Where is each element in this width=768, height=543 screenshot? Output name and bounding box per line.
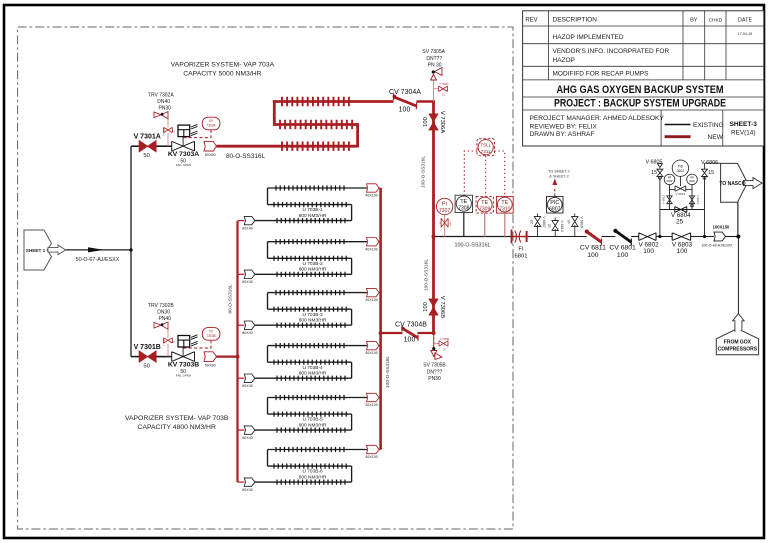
junction node main riser outlet [432, 235, 436, 239]
junction station left [658, 235, 661, 238]
pipe from GOX compressors [737, 237, 739, 315]
gate valve V 7301A (new) [139, 141, 156, 152]
svg-text:V 7307: V 7307 [448, 220, 450, 228]
vaporizer B inlet header [236, 221, 238, 482]
signal dotted link TSLL to TE 7309 [485, 156, 487, 197]
U 703B-1 inlet connector 80X40 [244, 216, 255, 224]
svg-text:V 6812: V 6812 [662, 194, 666, 204]
svg-text:TE: TE [501, 200, 508, 206]
svg-text:6807: 6807 [549, 207, 561, 213]
svg-text:VAPORIZER SYSTEM- VAP 703A: VAPORIZER SYSTEM- VAP 703A [171, 61, 275, 68]
svg-text:U 703B-3: U 703B-3 [302, 312, 323, 318]
U 703B-2 outlet stub [379, 241, 381, 243]
svg-text:V 7308A: V 7308A [439, 83, 449, 86]
bypass valve V 6804 [675, 207, 687, 213]
svg-text:800 NM3/HR: 800 NM3/HR [299, 423, 327, 429]
svg-text:SV 7305B: SV 7305B [423, 363, 446, 369]
svg-text:800 NM3/HR: 800 NM3/HR [299, 318, 327, 324]
reducer 100X150 [714, 232, 725, 241]
svg-text:DN30: DN30 [157, 310, 170, 316]
U 703B-2 inlet stub [238, 273, 245, 275]
U 703B-1 outlet connector 40X100 [367, 184, 380, 192]
svg-text:V 6807: V 6807 [542, 216, 546, 227]
svg-text:V 7306B: V 7306B [439, 296, 445, 318]
svg-text:REV: REV [525, 17, 537, 23]
svg-text:NEW: NEW [708, 134, 724, 141]
vaporizer unit U 703B-4 coil [254, 343, 367, 381]
svg-text:40X100: 40X100 [365, 194, 377, 198]
KV 7303A actuator [178, 124, 198, 146]
svg-text:V 6809: V 6809 [579, 216, 583, 227]
svg-text:50X80: 50X80 [205, 363, 216, 367]
svg-text:100: 100 [677, 248, 688, 255]
svg-text:800 NM3/HR: 800 NM3/HR [299, 475, 327, 481]
signal dotted link TSLL to TE 7310 [495, 151, 505, 196]
riser pipe to branches A and B [130, 146, 132, 356]
pipe into valve V 7301A [131, 145, 139, 147]
svg-text:FAIL OPEN: FAIL OPEN [176, 373, 191, 377]
svg-text:CV 6811: CV 6811 [580, 245, 606, 252]
svg-text:U 703B-6: U 703B-6 [302, 469, 323, 475]
pipe CV6801 to V6802 [631, 236, 638, 238]
svg-text:80X40: 80X40 [242, 488, 252, 492]
junction node B header [236, 355, 240, 359]
svg-text:7309: 7309 [479, 207, 490, 213]
svg-text:50: 50 [143, 153, 149, 159]
relief valve SV 7305A symbol [431, 68, 443, 102]
U 703B-4 outlet stub [379, 345, 381, 347]
isolation valve V 7306A [429, 114, 439, 130]
U 703B-6 inlet connector 80X40 [244, 478, 255, 486]
vaporizer A coil row 1 (outlet) [274, 100, 393, 103]
svg-text:EXISTING: EXISTING [693, 122, 724, 129]
vaporizer A coil row 2 fins [280, 120, 352, 129]
pipe V6803 to reducer [691, 236, 714, 238]
TE 7309 stem [484, 213, 486, 236]
main pipe FI to CV 6811 [529, 236, 587, 238]
temperature element TE 7308 housing [455, 195, 472, 212]
svg-text:100: 100 [404, 337, 416, 344]
control valve KV 7303A [172, 141, 195, 151]
svg-text:100: 100 [643, 248, 654, 255]
arrowhead to sheets [552, 179, 557, 186]
svg-text:PR: PR [668, 176, 672, 180]
svg-text:80X40: 80X40 [242, 384, 252, 388]
svg-text:TO NASCO: TO NASCO [719, 181, 745, 187]
TSLL 7311 bubble [478, 140, 493, 155]
U 703B-2 inlet connector 80X40 [244, 270, 255, 278]
svg-text:DN40: DN40 [157, 99, 170, 105]
svg-text:TE: TE [481, 200, 488, 206]
svg-text:100: 100 [617, 252, 629, 259]
inlet pipe from sheet 1 [66, 249, 132, 251]
U 703B-3 inlet stub [238, 324, 245, 326]
svg-text:7310: 7310 [499, 207, 510, 213]
svg-text:KV 7303B: KV 7303B [168, 362, 199, 369]
svg-text:40X100: 40X100 [365, 298, 377, 302]
U 703B-5 inlet stub [238, 429, 245, 431]
svg-text:PN30: PN30 [158, 105, 171, 111]
TE 7308 bubble [456, 196, 471, 211]
isolation valve V 6806 [702, 169, 708, 176]
svg-text:HAZOP IMPLEMENTED: HAZOP IMPLEMENTED [553, 34, 624, 41]
pipe NASCO flag to main line [737, 202, 739, 236]
legend existing line [665, 124, 691, 126]
TE 7308 stem [463, 213, 465, 237]
svg-text:DN???: DN??? [426, 56, 442, 62]
svg-text:80X40: 80X40 [242, 226, 252, 230]
svg-text:3602: 3602 [677, 169, 685, 173]
svg-text:17-04-19: 17-04-19 [738, 32, 752, 36]
U 703B-4 inlet stub [238, 377, 245, 379]
svg-text:800 NM3/HR: 800 NM3/HR [299, 213, 327, 219]
svg-text:40X100: 40X100 [365, 403, 377, 407]
gate valve V 6803 [672, 233, 691, 241]
svg-text:7308: 7308 [458, 206, 469, 212]
svg-text:FROM GOX: FROM GOX [724, 339, 752, 345]
svg-text:7307: 7307 [439, 208, 450, 214]
svg-text:V 7306A: V 7306A [439, 111, 445, 133]
U 703B-3 inlet connector 80X40 [244, 321, 255, 329]
svg-text:SHEET-3: SHEET-3 [729, 121, 757, 128]
control valve CV 7304A [393, 94, 417, 110]
pipe into valve V 7301B [131, 356, 139, 358]
vaporizer A right bend [356, 123, 359, 147]
svg-text:0909: 0909 [689, 179, 695, 183]
svg-text:KV 7303A: KV 7303A [168, 151, 199, 158]
PSV station piping [660, 176, 705, 236]
svg-text:V 6806: V 6806 [701, 160, 718, 166]
svg-text:MODIFIFD FOR RECAP PUMPS: MODIFIFD FOR RECAP PUMPS [553, 71, 650, 78]
gate valve V 6802 [639, 233, 656, 241]
svg-text:0909: 0909 [667, 179, 673, 183]
svg-text:100: 100 [587, 252, 599, 259]
svg-text:V 6813: V 6813 [696, 195, 700, 205]
svg-text:25: 25 [676, 219, 683, 226]
svg-text:40X100: 40X100 [365, 351, 377, 355]
svg-text:U 703B-2: U 703B-2 [302, 261, 323, 267]
svg-text:V 7301B: V 7301B [134, 344, 161, 351]
U 703B-3 outlet connector 40X100 [367, 288, 380, 296]
reducer 50X80 [204, 352, 216, 362]
vaporizer A left bend [273, 100, 276, 126]
pipe reducer to NASCO junction [725, 236, 738, 238]
gate valve V 7301B (new) [139, 351, 156, 362]
U 703B-4 inlet connector 80X40 [244, 374, 255, 382]
U 703B-6 outlet connector 40X100 [367, 445, 380, 453]
control valve CV 6801 (existing) [613, 229, 631, 246]
svg-text:40X100: 40X100 [365, 455, 377, 459]
svg-text:V 6805: V 6805 [645, 159, 662, 165]
svg-text:& SHEET-2: & SHEET-2 [549, 175, 568, 179]
svg-text:AHG GAS OXYGEN BACKUP SYSTEM: AHG GAS OXYGEN BACKUP SYSTEM [557, 84, 724, 96]
svg-text:100-O-SS316L: 100-O-SS316L [455, 242, 491, 248]
svg-text:50: 50 [143, 363, 149, 369]
bypass valve V 7308A (to SV 7305A) [434, 83, 449, 97]
U 703B-6 outlet stub [379, 449, 381, 451]
svg-text:DESCRIPTION: DESCRIPTION [553, 16, 598, 23]
svg-text:10: 10 [548, 224, 552, 228]
svg-text:CHKD: CHKD [709, 18, 723, 24]
vaporizer unit U 703B-5 coil [254, 395, 367, 433]
svg-text:80X40: 80X40 [242, 280, 252, 284]
svg-text:100X150: 100X150 [713, 224, 730, 229]
svg-text:7303B: 7303B [206, 334, 215, 338]
signal dashes XV to actuator [184, 340, 212, 348]
pipe 80-O-SS316L to vaporizer A [216, 145, 282, 147]
svg-text:80X40: 80X40 [242, 331, 252, 335]
junction node B header outlet [379, 331, 383, 335]
temperature element TE 7310 housing [496, 196, 513, 213]
svg-text:TSLL: TSLL [480, 142, 491, 147]
pipe CV 7304A to main riser [417, 100, 435, 103]
svg-text:SHEET 1: SHEET 1 [26, 248, 46, 253]
U 703B-5 outlet stub [379, 397, 381, 399]
svg-text:PN 30: PN 30 [428, 62, 442, 68]
svg-text:40: 40 [567, 220, 571, 224]
svg-text:TRV 7302A: TRV 7302A [148, 93, 174, 99]
junction station right [703, 235, 706, 238]
svg-text:PI: PI [442, 201, 447, 207]
U 703B-2 outlet connector 40X100 [367, 238, 380, 246]
svg-text:100-O-49-AJ/ESXX: 100-O-49-AJ/ESXX [701, 244, 733, 248]
PSV cluster PR 0909 / PID 3602 [662, 160, 700, 210]
svg-text:15: 15 [708, 170, 714, 176]
svg-text:TO SHEET-1: TO SHEET-1 [548, 170, 570, 174]
isolation valve V 7306B [429, 299, 439, 315]
svg-text:PR: PR [690, 176, 694, 180]
pipe between V7301 and KV [156, 356, 172, 358]
svg-text:U 703B-5: U 703B-5 [302, 417, 323, 423]
signal dashed to other sheets [554, 187, 556, 197]
vaporizer A coil row 1 fins [282, 97, 349, 106]
reducer 50X80 [204, 141, 216, 151]
svg-text:CV 7304B: CV 7304B [395, 322, 427, 329]
svg-text:800 NM3/HR: 800 NM3/HR [299, 267, 327, 273]
svg-text:CAPACITY 5000 NM3/HR: CAPACITY 5000 NM3/HR [183, 70, 261, 77]
main outlet pipe (existing) [434, 236, 512, 238]
flow element FI 6801 orifice flanges [512, 230, 530, 244]
off-page TO NASCO flag [721, 163, 748, 202]
svg-text:80X40: 80X40 [242, 436, 252, 440]
thermal relief valve TRV 7302B assembly [154, 322, 175, 357]
svg-text:DATE: DATE [738, 18, 753, 24]
svg-text:25: 25 [530, 220, 534, 224]
U 703B-1 inlet stub [238, 220, 245, 222]
U 703B-6 inlet stub [238, 481, 245, 483]
vaporizer A coil row 3 (inlet) [216, 145, 357, 148]
temperature switch TSLL 7311 housing [477, 139, 495, 156]
svg-text:DN???: DN??? [427, 370, 443, 376]
relief branch below junction [433, 333, 435, 349]
TE 7310 bubble [497, 197, 512, 212]
title block grid [523, 11, 764, 146]
U 703B-4 outlet connector 40X100 [367, 341, 380, 349]
PIC 6807 root valve [548, 218, 564, 237]
svg-text:REVIEWED BY: FELIX: REVIEWED BY: FELIX [530, 123, 598, 130]
svg-text:V 7305B: V 7305B [440, 338, 450, 341]
thermal relief valve TRV 7302A assembly [154, 112, 175, 147]
PI 7307 root valve [440, 215, 450, 237]
vaporizer unit U 703B-2 coil [254, 239, 367, 277]
pressure indicator PI 7307 [436, 198, 452, 214]
svg-text:REV(14): REV(14) [731, 129, 756, 136]
flow arrow on inlet pipe [88, 247, 104, 252]
svg-text:CV 7304A: CV 7304A [389, 89, 421, 96]
svg-text:7311: 7311 [481, 149, 491, 154]
relief valve SV 7305B assembly [431, 338, 450, 360]
junction node main riser at 333 [432, 331, 436, 335]
svg-text:PID: PID [678, 164, 684, 168]
svg-text:U 703B-4: U 703B-4 [302, 365, 323, 371]
title block revision rows text [525, 16, 752, 77]
solenoid tag XV 7303A [202, 117, 220, 130]
svg-text:COMPRESSORS: COMPRESSORS [718, 347, 758, 353]
junction node at riser [129, 248, 132, 251]
svg-text:PROJECT : BACKUP SYSTEM UPGRAD: PROJECT : BACKUP SYSTEM UPGRADE [554, 98, 726, 110]
junction node NASCO [736, 235, 740, 239]
svg-text:V 6815: V 6815 [676, 192, 686, 196]
signal dotted link TSLL to TE 7308 [464, 151, 477, 195]
isolation valve V 6805 [657, 169, 663, 176]
SHEET 1 open arrow [48, 245, 66, 255]
svg-text:V 7301A: V 7301A [134, 134, 161, 141]
U 703B-5 outlet connector 40X100 [367, 393, 380, 401]
svg-text:DRAWN BY: ASHRAF: DRAWN BY: ASHRAF [530, 131, 595, 138]
control valve KV 7303B [172, 352, 195, 362]
svg-text:100-O-SS316L: 100-O-SS316L [421, 156, 427, 188]
svg-text:SV 7305A: SV 7305A [422, 49, 445, 55]
vaporizer B outlet header [379, 188, 382, 450]
vent valve V 6807 [530, 214, 546, 237]
svg-text:100-O-SS316L: 100-O-SS316L [424, 259, 430, 291]
svg-text:FAIL OPEN: FAIL OPEN [176, 163, 191, 167]
pipe B header to CV 7304B [381, 332, 403, 334]
svg-text:V 7302A: V 7302A [163, 127, 166, 136]
svg-text:50X80: 50X80 [205, 153, 216, 157]
svg-text:800 NM3/HR: 800 NM3/HR [299, 371, 327, 377]
vaporizer A coil row 3 fins [282, 142, 349, 151]
pipe V6802 to V6803 [656, 236, 672, 238]
svg-text:CAPACITY 4800 NM3/HR: CAPACITY 4800 NM3/HR [138, 424, 216, 431]
off-page connector SHEET 1 flag [24, 230, 52, 270]
svg-text:PEROJECT MANAGER: AHMED ALDESO: PEROJECT MANAGER: AHMED ALDESOKY [530, 115, 665, 122]
vaporizer A coil row 2 [274, 123, 357, 126]
svg-text:PIC: PIC [550, 200, 559, 206]
vaporizer unit U 703B-1 coil [254, 185, 367, 223]
U 703B-1 outlet stub [379, 187, 381, 189]
svg-text:7303A: 7303A [206, 124, 216, 128]
TO NASCO arrow [744, 178, 763, 189]
solenoid tag XV 7303B [202, 328, 220, 341]
svg-text:V 6810: V 6810 [560, 220, 564, 231]
U 703B-3 outlet stub [379, 292, 381, 294]
svg-text:BY: BY [690, 18, 698, 24]
svg-text:15: 15 [651, 170, 657, 176]
vaporizer unit U 703B-3 coil [254, 290, 367, 328]
KV 7303B actuator [178, 335, 198, 357]
svg-text:40X100: 40X100 [365, 247, 377, 251]
svg-text:100: 100 [423, 302, 429, 312]
temperature element TE 7309 housing [476, 196, 493, 213]
control valve CV 6811 (new) [585, 230, 602, 246]
TE 7309 bubble [477, 197, 492, 212]
battery-limit dash-dot boundary [18, 27, 513, 529]
vaporizer unit U 703B-6 coil [254, 447, 367, 485]
vent valve V 6809 [567, 214, 583, 237]
TE 7310 stem [504, 213, 506, 236]
svg-text:100: 100 [423, 117, 429, 127]
svg-text:100: 100 [399, 107, 411, 114]
svg-text:VAPORIZER SYSTEM- VAP 703B: VAPORIZER SYSTEM- VAP 703B [125, 415, 229, 422]
off-page FROM GOX COMPRESSORS flag [716, 314, 758, 355]
svg-text:VENDOR'S INFO. INCORPRATED FOR: VENDOR'S INFO. INCORPRATED FOR [553, 48, 670, 55]
U 703B-5 inlet connector 80X40 [244, 426, 255, 434]
svg-text:PN30: PN30 [428, 376, 441, 382]
svg-text:80-O-SS316L: 80-O-SS316L [226, 153, 266, 160]
svg-text:FI: FI [518, 246, 524, 252]
pipe from KV 7303B to header [216, 356, 237, 358]
svg-text:HAZOP: HAZOP [553, 57, 575, 64]
svg-text:50-O-67-AJ/ESXX: 50-O-67-AJ/ESXX [76, 257, 120, 263]
svg-text:PN40: PN40 [158, 316, 171, 322]
svg-text:V 7302B: V 7302B [164, 337, 166, 346]
svg-text:80-O-SS316L: 80-O-SS316L [228, 284, 234, 314]
pipe CV6811 to CV6801 [602, 236, 616, 238]
svg-text:100-O-SS316L: 100-O-SS316L [385, 356, 391, 388]
pipe CV 7304B to main riser [418, 332, 435, 334]
main header vertical (new oxygen line) [432, 100, 435, 333]
svg-text:U 703B-1: U 703B-1 [302, 207, 323, 213]
pipe between V7301 and KV [156, 145, 172, 147]
svg-text:CV 6801: CV 6801 [609, 245, 636, 252]
title block credits text [530, 115, 665, 138]
svg-text:6801: 6801 [515, 254, 528, 260]
svg-text:TE: TE [460, 199, 467, 205]
pressure controller PIC 6807 housing [547, 196, 564, 213]
signal dashes XV to actuator [184, 130, 212, 138]
svg-text:TRV 7302B: TRV 7302B [148, 303, 174, 309]
PIC 6807 bubble [548, 197, 563, 212]
control valve CV 7304B [401, 325, 418, 341]
legend new line [665, 135, 691, 138]
